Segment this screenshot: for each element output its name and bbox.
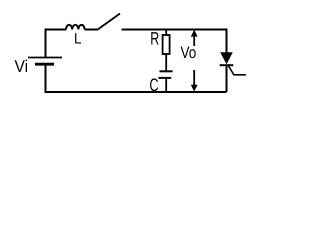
resistor R body: [163, 35, 170, 54]
thyristor cathode bar: [220, 64, 234, 66]
thyristor triangle: [220, 52, 233, 64]
capacitor C top plate: [160, 70, 173, 72]
svg-text:C: C: [149, 75, 158, 95]
inductor L: [66, 25, 85, 30]
thyristor gate: [229, 66, 246, 75]
capacitor C bottom plate: [159, 77, 172, 79]
svg-text:Vo: Vo: [181, 44, 197, 62]
battery Vi short plate (-): [35, 63, 54, 66]
wire: switch right contact to top-right corner: [122, 29, 228, 31]
wire: battery to bottom-left corner and bottom rail: [46, 66, 227, 92]
svg-text:Vi: Vi: [15, 57, 29, 76]
thyristor anode lead (right rail top): [226, 30, 228, 53]
wire: resistor to capacitor: [165, 54, 167, 71]
switch blade: [97, 14, 120, 31]
battery Vi long plate (+): [28, 57, 62, 59]
svg-text:R: R: [150, 29, 159, 49]
thyristor cathode lead (right rail bottom): [226, 65, 228, 92]
capacitor C bottom lead: [165, 78, 167, 92]
Vo arrow up: [193, 34, 195, 46]
Vo arrow down: [193, 70, 195, 87]
resistor R top lead: [165, 30, 167, 36]
wire top-left: from source top to inductor: [46, 30, 67, 58]
wire: inductor to switch left contact: [85, 29, 97, 31]
svg-text:L: L: [74, 30, 81, 47]
